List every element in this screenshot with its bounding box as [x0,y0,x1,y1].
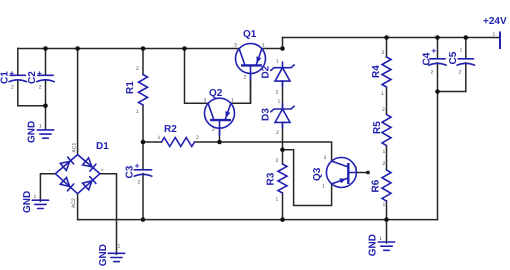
transistor Q1 [234,29,266,103]
svg-text:Q3: Q3 [312,167,323,181]
wire C4 leg [437,38,439,92]
ground GND1 (below C1/C2) [26,121,53,143]
node C3/bottom rail [141,217,146,222]
wire Q2 base down [219,128,221,142]
svg-text:2: 2 [244,75,247,81]
svg-text:2: 2 [138,180,141,186]
wire R4 top leg [386,38,388,58]
wire C2 leg [45,49,47,106]
wire R4-R5 link [386,87,388,115]
wire bottom rail [78,219,438,221]
svg-text:1: 1 [158,135,161,141]
svg-text:AC2: AC2 [71,198,77,208]
resistor R3 [266,158,288,203]
ground GND2 (bridge minus) [22,191,49,213]
svg-text:2: 2 [382,50,385,56]
node C4/C5 bottom [435,89,440,94]
svg-text:2: 2 [212,127,215,133]
svg-text:+24V: +24V [483,16,507,27]
node C2 bottom [43,104,48,109]
zener diode D3 [261,99,295,137]
svg-text:R6: R6 [371,179,382,192]
wire C1-C2 bottom [18,105,46,107]
svg-text:C5: C5 [448,51,459,64]
svg-text:1: 1 [276,197,279,203]
capacitor C1 [0,69,27,91]
transistor Q3 [312,155,370,190]
svg-text:2: 2 [431,70,434,76]
wire node to Q3 emitter bypass [283,150,332,206]
wire AC2 drop [77,194,79,220]
svg-text:3: 3 [324,155,327,161]
wire C3 bottom leg [142,174,144,220]
wire C4 node drop to bottom rail [437,92,439,220]
wire C2 bottom to GND [45,106,47,130]
svg-text:2: 2 [459,70,462,76]
node C4/+24V rail [435,35,440,40]
svg-text:2: 2 [276,158,279,164]
wire Q3 base stub [356,172,366,174]
svg-text:2: 2 [276,90,279,96]
wire R3 bottom lead [282,193,284,220]
svg-text:+: + [10,69,15,78]
wire C4-C5 bottom link [438,91,466,93]
node Q2 riser/rail [182,46,187,51]
node Q2 base/R2 [217,140,222,145]
svg-text:1: 1 [379,236,382,242]
svg-text:D1: D1 [96,141,109,152]
svg-text:2: 2 [355,166,358,172]
resistor R5 [372,107,391,155]
svg-text:R4: R4 [371,65,382,78]
wire D3 anode down through crossing to node [282,122,284,149]
node D3/R3/Q3 [280,147,285,152]
resistor R2 [158,124,200,147]
wire AC1 riser [77,49,79,155]
resistor R4 [371,50,391,97]
svg-text:Q2: Q2 [209,88,223,99]
wire R5-R6 link [386,146,388,171]
wire bridge plus down to GND [100,174,117,255]
svg-text:2: 2 [11,85,14,91]
zener diode D2 [261,59,295,96]
capacitor C2 [27,69,54,91]
svg-text:R2: R2 [164,124,177,135]
bridge rectifier D1 [49,141,110,208]
ground GND3 (bridge plus drop) [98,244,125,267]
svg-text:2: 2 [276,130,279,136]
svg-text:D3: D3 [261,108,272,121]
wire R1 leg from rail [142,49,144,75]
svg-text:1: 1 [460,48,463,54]
wire D2 anode to D3 cathode [282,81,284,109]
node R3/bottom rail [280,217,285,222]
wire R1 bottom to node [142,105,144,170]
node R1/rail [141,46,146,51]
wire top-right +24V rail [283,37,501,39]
supply +24V [483,16,507,49]
capacitor C5 [448,48,474,76]
svg-text:1: 1 [136,109,139,115]
svg-text:+: + [101,168,104,174]
wire riser to +24V rail [282,38,284,49]
svg-text:1: 1 [381,91,384,97]
svg-text:+: + [135,162,140,171]
svg-text:1: 1 [493,32,496,38]
resistor R1 [125,66,148,115]
svg-text:3: 3 [204,98,207,104]
svg-text:2: 2 [196,135,199,141]
svg-text:R5: R5 [372,121,383,134]
svg-text:1: 1 [383,149,386,155]
ground GND4 (bottom rail) [367,234,394,256]
node R1/R2/C3 [141,140,146,145]
svg-text:1: 1 [383,202,386,208]
svg-text:2: 2 [39,85,42,91]
svg-text:1: 1 [262,43,265,49]
svg-text:1: 1 [322,184,325,190]
svg-text:3: 3 [234,43,237,49]
node R6/GND/bottom rail [384,217,389,222]
svg-text:AC1: AC1 [72,143,78,153]
node R4/+24V rail [384,35,389,40]
svg-text:GND: GND [367,234,378,256]
svg-text:2: 2 [383,161,386,167]
node D2/rail [280,46,285,51]
wire R6 bottom leg [386,201,388,220]
svg-text:GND: GND [26,121,37,143]
capacitor C3 [125,162,152,186]
svg-text:1: 1 [276,59,279,65]
svg-text:2: 2 [136,66,139,72]
node C5/+24V rail [464,35,469,40]
svg-text:+: + [37,69,42,78]
svg-text:Q1: Q1 [243,29,257,40]
capacitor C4 [422,47,447,76]
svg-text:GND: GND [22,191,33,213]
svg-text:1: 1 [118,244,121,250]
svg-text:1: 1 [39,124,42,130]
wire C5 leg [465,38,467,92]
svg-text:R3: R3 [266,172,277,185]
wire R3 top lead [282,150,284,164]
wire R2 left lead [143,141,162,143]
wire riser to Q2 collector [185,49,209,104]
wire C1 leg [17,49,19,106]
wire bridge minus to GND [40,174,55,202]
svg-text:1: 1 [34,194,37,200]
node AC1/rail [75,46,80,51]
svg-text:+: + [432,47,437,56]
transistor Q2 [204,88,235,136]
wire top-left rail [18,48,239,50]
wire R2 right lead and run to Q3 collector [195,142,332,161]
wire R6 bottom GND drop [386,220,388,243]
svg-text:1: 1 [278,99,281,105]
wire Q2 emitter to Q1 base [231,74,251,104]
resistor R6 [371,161,392,208]
node C2/rail [43,46,48,51]
svg-text:R1: R1 [125,81,136,94]
svg-text:2: 2 [382,107,385,113]
svg-text:1: 1 [231,98,234,104]
wire Q1 emitter to D2 node [262,48,283,50]
svg-text:GND: GND [98,244,109,266]
